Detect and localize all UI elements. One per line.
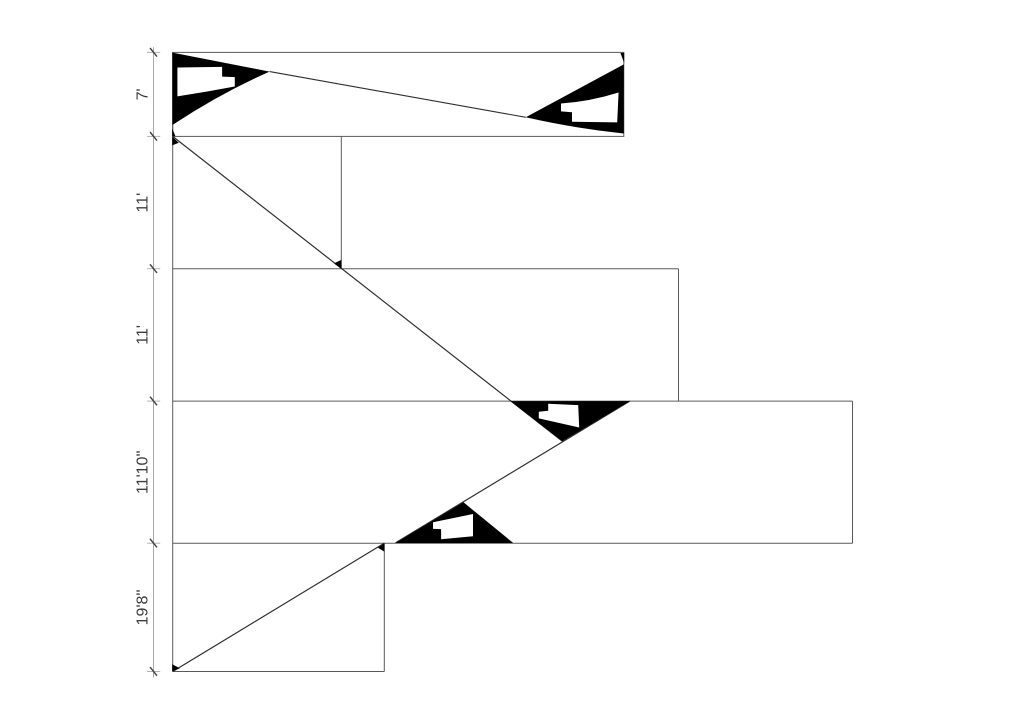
tick level 1 bbox=[147, 132, 160, 141]
tick level 5 bbox=[147, 667, 160, 676]
bottom small room right wall bbox=[383, 543, 385, 671]
level line y=401 bbox=[173, 400, 853, 402]
ramp diagonal D3 bbox=[173, 543, 385, 671]
arrowhead at D1 mid crossing bbox=[334, 260, 341, 269]
top-right wedge car cutout bbox=[561, 93, 619, 123]
level line y=543 bbox=[173, 542, 853, 544]
right wall of lower floor bbox=[852, 401, 854, 543]
tick level 0 bbox=[147, 48, 160, 57]
top rectangle roof slab outline bbox=[173, 52, 624, 136]
right wall of mid floor bbox=[678, 269, 680, 401]
level line y=268.7 bbox=[173, 268, 679, 270]
svg-text:7': 7' bbox=[134, 88, 151, 100]
ramp diagonal D2 bbox=[396, 401, 630, 543]
dimension line vertical bbox=[153, 47, 155, 677]
left wall bbox=[172, 52, 174, 671]
lower ramp triangle bbox=[396, 502, 514, 543]
ramp diagonal D1 bbox=[173, 136, 563, 441]
top-right corner sliver bbox=[620, 53, 624, 63]
svg-text:11'10'': 11'10'' bbox=[134, 450, 151, 494]
svg-text:19'8'': 19'8'' bbox=[134, 589, 151, 625]
sliver above D1 start bbox=[172, 129, 175, 137]
mid triangle car cutout bbox=[539, 404, 579, 428]
bottom floor line bbox=[173, 671, 385, 673]
arrowhead at D3 bottom start bbox=[172, 664, 180, 671]
tick level 4 bbox=[147, 539, 160, 548]
tick level 3 bbox=[147, 397, 160, 406]
top-left ramp wedge bbox=[172, 53, 269, 125]
ramp line top span bbox=[270, 72, 526, 118]
lower triangle car cutout bbox=[433, 514, 473, 539]
arrowhead at D1 start bbox=[172, 137, 179, 146]
svg-text:11': 11' bbox=[134, 325, 151, 345]
tick level 2 bbox=[147, 264, 160, 273]
top-right ramp wedge bbox=[526, 64, 624, 133]
svg-text:11': 11' bbox=[134, 193, 151, 213]
mid ramp triangle bbox=[510, 401, 629, 441]
arrowhead at D3 top end bbox=[378, 543, 384, 551]
interior partition x=341 bbox=[340, 136, 342, 268]
top-left wedge car cutout bbox=[177, 67, 234, 97]
